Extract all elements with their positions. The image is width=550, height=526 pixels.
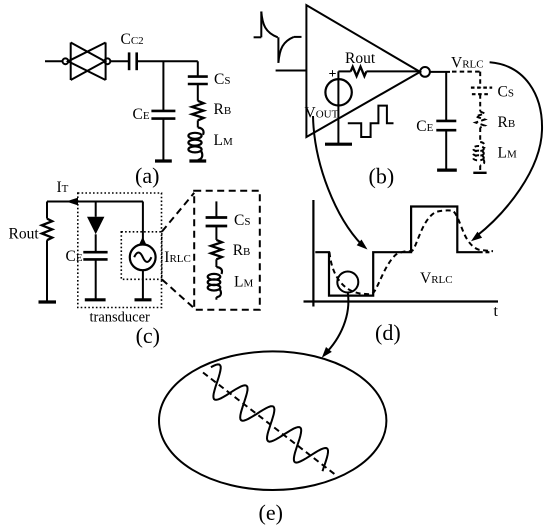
svg-text:CC2: CC2 [121,31,144,48]
svg-text:CS: CS [214,71,230,88]
svg-text:(d): (d) [375,320,401,345]
svg-text:CE: CE [133,106,150,123]
svg-text:RB: RB [214,101,232,118]
svg-text:VRLC: VRLC [420,270,453,287]
svg-text:IT: IT [57,179,69,196]
svg-text:+: + [329,67,337,82]
svg-text:LM: LM [234,274,253,291]
svg-text:t: t [494,303,499,320]
svg-text:(c): (c) [136,323,160,348]
svg-text:(e): (e) [259,500,283,525]
svg-text:CE: CE [66,248,83,265]
svg-text:Rout: Rout [9,226,40,243]
svg-text:CS: CS [498,84,514,101]
svg-text:CS: CS [234,212,250,229]
svg-text:VOUT: VOUT [305,105,339,122]
svg-text:(a): (a) [135,163,159,188]
svg-text:RB: RB [233,242,251,259]
svg-text:RB: RB [498,114,516,131]
svg-text:(b): (b) [369,163,395,188]
svg-text:LM: LM [214,132,233,149]
svg-text:IRLC: IRLC [164,249,191,266]
svg-text:VRLC: VRLC [451,55,484,72]
svg-text:Rout: Rout [345,50,376,67]
svg-text:CE: CE [416,118,433,135]
svg-text:LM: LM [498,145,517,162]
